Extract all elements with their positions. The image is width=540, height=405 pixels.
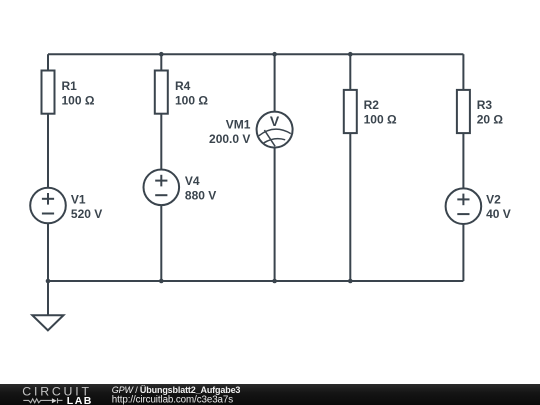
svg-text:520 V: 520 V — [71, 207, 102, 221]
svg-text:20 Ω: 20 Ω — [477, 113, 504, 127]
svg-text:200.0 V: 200.0 V — [209, 132, 250, 146]
svg-text:V2: V2 — [486, 193, 501, 207]
svg-text:V: V — [270, 113, 280, 129]
svg-text:R2: R2 — [364, 98, 380, 112]
svg-text:100 Ω: 100 Ω — [175, 94, 208, 108]
svg-text:LAB: LAB — [67, 395, 93, 405]
svg-text:V1: V1 — [71, 193, 86, 207]
svg-text:R3: R3 — [477, 98, 493, 112]
svg-text:100 Ω: 100 Ω — [62, 94, 95, 108]
svg-text:R4: R4 — [175, 79, 191, 93]
svg-text:R1: R1 — [62, 79, 78, 93]
svg-text:880 V: 880 V — [185, 189, 216, 203]
svg-text:V4: V4 — [185, 174, 200, 188]
svg-text:100 Ω: 100 Ω — [364, 113, 397, 127]
svg-text:VM1: VM1 — [226, 118, 251, 132]
svg-text:40 V: 40 V — [486, 207, 511, 221]
svg-text:http://circuitlab.com/c3e3a7s: http://circuitlab.com/c3e3a7s — [112, 394, 233, 405]
